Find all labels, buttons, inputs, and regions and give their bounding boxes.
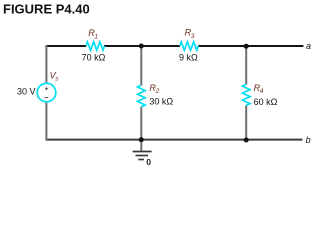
svg-text:R3: R3	[185, 28, 195, 40]
voltage source Vs circle	[37, 83, 56, 102]
svg-text:R2: R2	[149, 83, 159, 95]
svg-text:9 kΩ: 9 kΩ	[179, 52, 198, 62]
svg-text:R1: R1	[88, 28, 98, 40]
voltage source plus sign	[45, 88, 48, 90]
wire R4 branch lower	[245, 105, 247, 140]
wire left vertical lower	[45, 102, 47, 141]
resistor R3 zigzag	[180, 42, 199, 50]
wire top horizontal right segment to node a	[198, 45, 303, 47]
junction dot bottom ground	[139, 137, 144, 142]
svg-text:R4: R4	[254, 83, 264, 95]
junction dot top R2	[139, 44, 144, 49]
svg-text:b: b	[306, 135, 311, 145]
resistor R4 zigzag	[242, 84, 250, 105]
svg-text:Vs: Vs	[50, 71, 60, 83]
junction dot top R4	[244, 44, 249, 49]
junction dot bottom R4	[244, 138, 249, 143]
svg-text:60 kΩ: 60 kΩ	[254, 97, 278, 107]
resistor R1 zigzag	[86, 42, 105, 50]
wire top horizontal middle segment	[104, 45, 180, 47]
resistor R2 zigzag	[138, 85, 146, 107]
wire R2 branch lower	[140, 107, 142, 140]
svg-text:30 V: 30 V	[17, 86, 36, 96]
voltage source minus sign	[45, 97, 48, 99]
svg-text:0: 0	[146, 157, 151, 167]
wire top horizontal left segment	[45, 45, 86, 47]
wire R2 branch upper	[140, 46, 142, 85]
svg-text:70 kΩ: 70 kΩ	[82, 52, 106, 62]
svg-text:FIGURE P4.40: FIGURE P4.40	[3, 2, 90, 17]
wire ground stub	[140, 140, 142, 151]
svg-text:a: a	[306, 41, 311, 51]
wire left vertical upper	[45, 45, 47, 84]
svg-text:30 kΩ: 30 kΩ	[149, 96, 173, 106]
wire bottom horizontal to node b	[45, 139, 302, 141]
wire R4 branch upper	[245, 46, 247, 84]
ground	[133, 152, 152, 160]
